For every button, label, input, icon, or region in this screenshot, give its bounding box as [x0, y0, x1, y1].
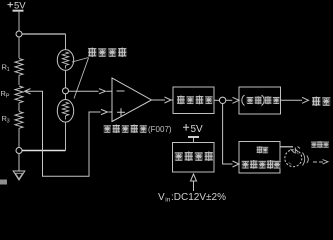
svg-text:V: V [158, 192, 165, 203]
sound arrow [313, 161, 325, 163]
svg-text:1: 1 [7, 67, 10, 73]
label 湿敏元件 (sensing elements) [88, 48, 127, 58]
wire box1 to node circle [214, 99, 219, 101]
wire bottom horizontal (left node to sensor branch) [22, 150, 66, 152]
sensor RH2 (circled element) [57, 100, 73, 123]
arrow output [302, 97, 309, 103]
box (输出)电路 (output circuit) [239, 87, 281, 114]
arrow inverting input [99, 89, 106, 94]
label 蜂鸣器 (buzzer) [311, 141, 329, 148]
pointer line to RH1 [72, 58, 89, 63]
box 整形电路 (shaping circuit) [173, 87, 214, 114]
arrow non-inverting input [101, 109, 108, 114]
wire inverting input [69, 90, 112, 92]
sound arcs [303, 153, 309, 166]
resistor R1 [2, 59, 24, 80]
power bar (top-left) [13, 10, 24, 12]
svg-text:3: 3 [7, 119, 10, 125]
arrow into shaping box [165, 97, 172, 103]
svg-text:(F007): (F007) [148, 125, 172, 134]
wire op-amp output [152, 99, 166, 101]
wiper arrow [25, 89, 31, 94]
power +5V (top-left) label [8, 2, 14, 7]
buzzer HA (bell) [285, 150, 302, 167]
wire left branch down to R1 [18, 37, 20, 58]
node circle T [219, 97, 225, 103]
wire RH1 to node [65, 70, 67, 99]
sensor RH1 (circled element) [57, 50, 73, 71]
svg-text:in: in [165, 197, 170, 204]
buzzer terminal tab [291, 147, 301, 154]
label Vin:DC12V±2% [158, 192, 226, 204]
arrow into alarm box [233, 161, 240, 167]
svg-text:P: P [6, 94, 10, 100]
svg-text::DC12V±2%: :DC12V±2% [171, 192, 226, 203]
wire +5V stub down [18, 12, 20, 31]
arrow up into regulator box [191, 174, 197, 191]
ground [13, 154, 25, 181]
potentiometer RP [1, 86, 31, 111]
wire node down to alarm box [223, 104, 233, 165]
node junction circle (bottom-left) [16, 148, 22, 154]
scan artifact bottom-left [0, 180, 7, 185]
resistor R3 [2, 112, 24, 148]
power +5V (middle) label [183, 124, 189, 131]
wire box2 output [281, 99, 303, 101]
node junction circle (sensor mid) [63, 88, 69, 94]
label 运算放大器(F007) [104, 125, 172, 135]
node junction circle (top) [16, 31, 22, 37]
pointer line to RH2 [74, 58, 89, 99]
box 上下/限报警电路 (limit alarm) [239, 142, 281, 174]
wire +5V stub into regulator box [193, 138, 195, 143]
wire alarm box to buzzer [280, 146, 293, 148]
op-amp U1 [112, 78, 152, 122]
wire R1 to RP [18, 79, 20, 85]
power bar (middle) [188, 136, 199, 138]
box 稳压电路 (regulator) [173, 143, 215, 173]
wire wiper to non-inverting input [30, 91, 112, 176]
wire sensor branch down to RH1 [65, 34, 67, 50]
arrow into output box [233, 97, 240, 103]
wire RH2 down to bottom wire [65, 122, 67, 150]
wire top horizontal to sensor branch [22, 33, 66, 35]
label 输出 (output) [312, 97, 330, 107]
svg-text:5V: 5V [191, 124, 204, 135]
wire node to box2 [226, 99, 233, 101]
